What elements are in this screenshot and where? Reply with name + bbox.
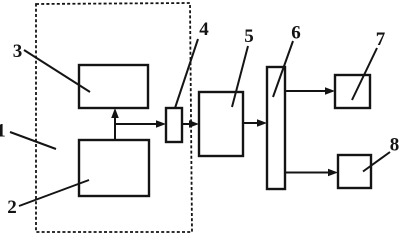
label 4 [175, 19, 209, 108]
box 6 [267, 67, 285, 189]
svg-text:4: 4 [199, 19, 209, 40]
dashed enclosure box 1 [36, 3, 192, 232]
wire box5 to box6 with right arrow [243, 119, 267, 127]
svg-text:8: 8 [390, 135, 400, 156]
svg-text:1: 1 [0, 121, 6, 142]
box 5 [199, 92, 243, 156]
box 4 [166, 108, 182, 142]
label 5 [232, 26, 254, 107]
label 3 [13, 41, 90, 92]
wire box4 to box5 with right arrow [182, 120, 199, 128]
box 8 [338, 155, 371, 188]
label 8 [363, 135, 399, 172]
wire box2 to box3 with up arrow [111, 108, 119, 140]
wire branch to box4 with right arrow [114, 120, 166, 128]
box 2 [79, 140, 149, 196]
wire box6 to box7 with right arrow [285, 87, 335, 95]
label 2 [7, 180, 89, 218]
svg-text:3: 3 [13, 41, 23, 62]
label 7 [352, 29, 386, 100]
label 6 [273, 23, 301, 98]
box 3 [79, 65, 148, 108]
svg-text:2: 2 [7, 197, 17, 218]
svg-text:6: 6 [291, 23, 301, 44]
label 1 [0, 121, 56, 150]
wire box6 to box8 with right arrow [285, 169, 338, 177]
box 7 [335, 75, 370, 108]
svg-text:5: 5 [244, 26, 254, 47]
svg-text:7: 7 [376, 29, 386, 50]
